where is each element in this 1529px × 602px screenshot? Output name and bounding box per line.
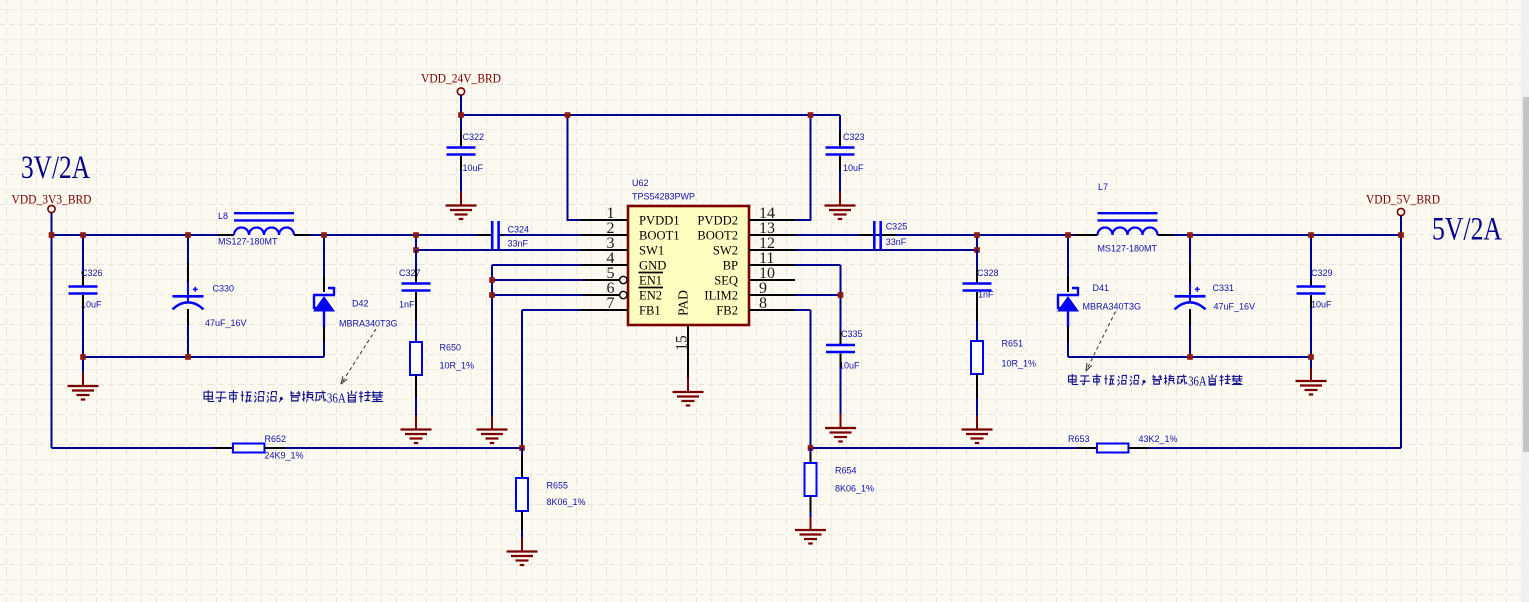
svg-text:C324: C324 [508, 225, 530, 235]
svg-text:R651: R651 [1002, 339, 1024, 349]
svg-text:10uF: 10uF [463, 163, 484, 173]
svg-text:R650: R650 [440, 343, 462, 353]
svg-text:L7: L7 [1098, 182, 1108, 192]
svg-text:MBRA340T3G: MBRA340T3G [339, 319, 398, 329]
svg-text:43K2_1%: 43K2_1% [1139, 434, 1178, 444]
svg-text:GND: GND [639, 259, 666, 273]
svg-text:SW2: SW2 [713, 244, 738, 258]
svg-text:BOOT2: BOOT2 [697, 229, 738, 243]
svg-text:EN1: EN1 [639, 274, 662, 288]
svg-text:10R_1%: 10R_1% [1002, 359, 1037, 369]
svg-text:10R_1%: 10R_1% [440, 361, 475, 371]
svg-text:MS127-180MT: MS127-180MT [218, 237, 278, 247]
svg-text:VDD_3V3_BRD: VDD_3V3_BRD [12, 193, 92, 207]
svg-text:47uF_16V: 47uF_16V [205, 318, 247, 328]
svg-text:36A: 36A [327, 392, 347, 407]
svg-text:L8: L8 [218, 211, 228, 221]
svg-text:10uF: 10uF [1311, 300, 1332, 310]
svg-text:3V/2A: 3V/2A [21, 150, 90, 186]
svg-text:BP: BP [723, 259, 738, 273]
svg-text:R655: R655 [547, 481, 569, 491]
svg-text:SEQ: SEQ [714, 274, 738, 288]
svg-text:FB2: FB2 [716, 304, 738, 318]
svg-text:C322: C322 [463, 132, 485, 142]
svg-text:U62: U62 [632, 178, 649, 188]
svg-text:10uF: 10uF [839, 361, 860, 371]
svg-text:C331: C331 [1213, 283, 1235, 293]
svg-text:1nF: 1nF [978, 290, 994, 300]
svg-text:33nF: 33nF [886, 237, 907, 247]
svg-text:8K06_1%: 8K06_1% [547, 497, 586, 507]
svg-text:5V/2A: 5V/2A [1432, 212, 1502, 248]
svg-text:C323: C323 [843, 132, 865, 142]
svg-text:R653: R653 [1068, 434, 1090, 444]
svg-text:MS127-180MT: MS127-180MT [1098, 244, 1158, 254]
svg-text:FB1: FB1 [639, 304, 661, 318]
svg-text:C329: C329 [1311, 268, 1333, 278]
svg-text:47uF_16V: 47uF_16V [1214, 302, 1256, 312]
svg-text:D42: D42 [352, 299, 369, 309]
svg-text:1nF: 1nF [399, 300, 415, 310]
svg-text:VDD_24V_BRD: VDD_24V_BRD [421, 72, 501, 86]
svg-text:R654: R654 [835, 466, 857, 476]
svg-text:C328: C328 [977, 268, 999, 278]
svg-text:C327: C327 [399, 268, 421, 278]
svg-text:EN2: EN2 [639, 289, 662, 303]
svg-text:8K06_1%: 8K06_1% [835, 484, 874, 494]
svg-text:7: 7 [607, 295, 615, 312]
svg-text:D41: D41 [1093, 283, 1110, 293]
svg-text:TPS54283PWP: TPS54283PWP [632, 192, 695, 202]
svg-text:10uF: 10uF [81, 300, 102, 310]
svg-text:SW1: SW1 [639, 244, 664, 258]
svg-text:BOOT1: BOOT1 [639, 229, 680, 243]
svg-text:36A: 36A [1188, 374, 1207, 389]
svg-text:24K9_1%: 24K9_1% [265, 451, 304, 461]
svg-text:10uF: 10uF [843, 163, 864, 173]
svg-text:R652: R652 [265, 434, 287, 444]
svg-text:ILIM2: ILIM2 [704, 289, 738, 303]
svg-text:C326: C326 [81, 268, 103, 278]
svg-text:VDD_5V_BRD: VDD_5V_BRD [1366, 193, 1440, 207]
svg-text:33nF: 33nF [508, 239, 529, 249]
svg-text:PVDD1: PVDD1 [639, 214, 680, 228]
svg-text:C325: C325 [886, 222, 908, 232]
svg-text:C330: C330 [213, 284, 235, 294]
svg-text:PVDD2: PVDD2 [697, 214, 738, 228]
svg-text:MBRA340T3G: MBRA340T3G [1083, 302, 1142, 312]
svg-text:8: 8 [759, 295, 767, 312]
svg-text:C335: C335 [841, 329, 863, 339]
svg-text:PAD: PAD [676, 290, 691, 316]
